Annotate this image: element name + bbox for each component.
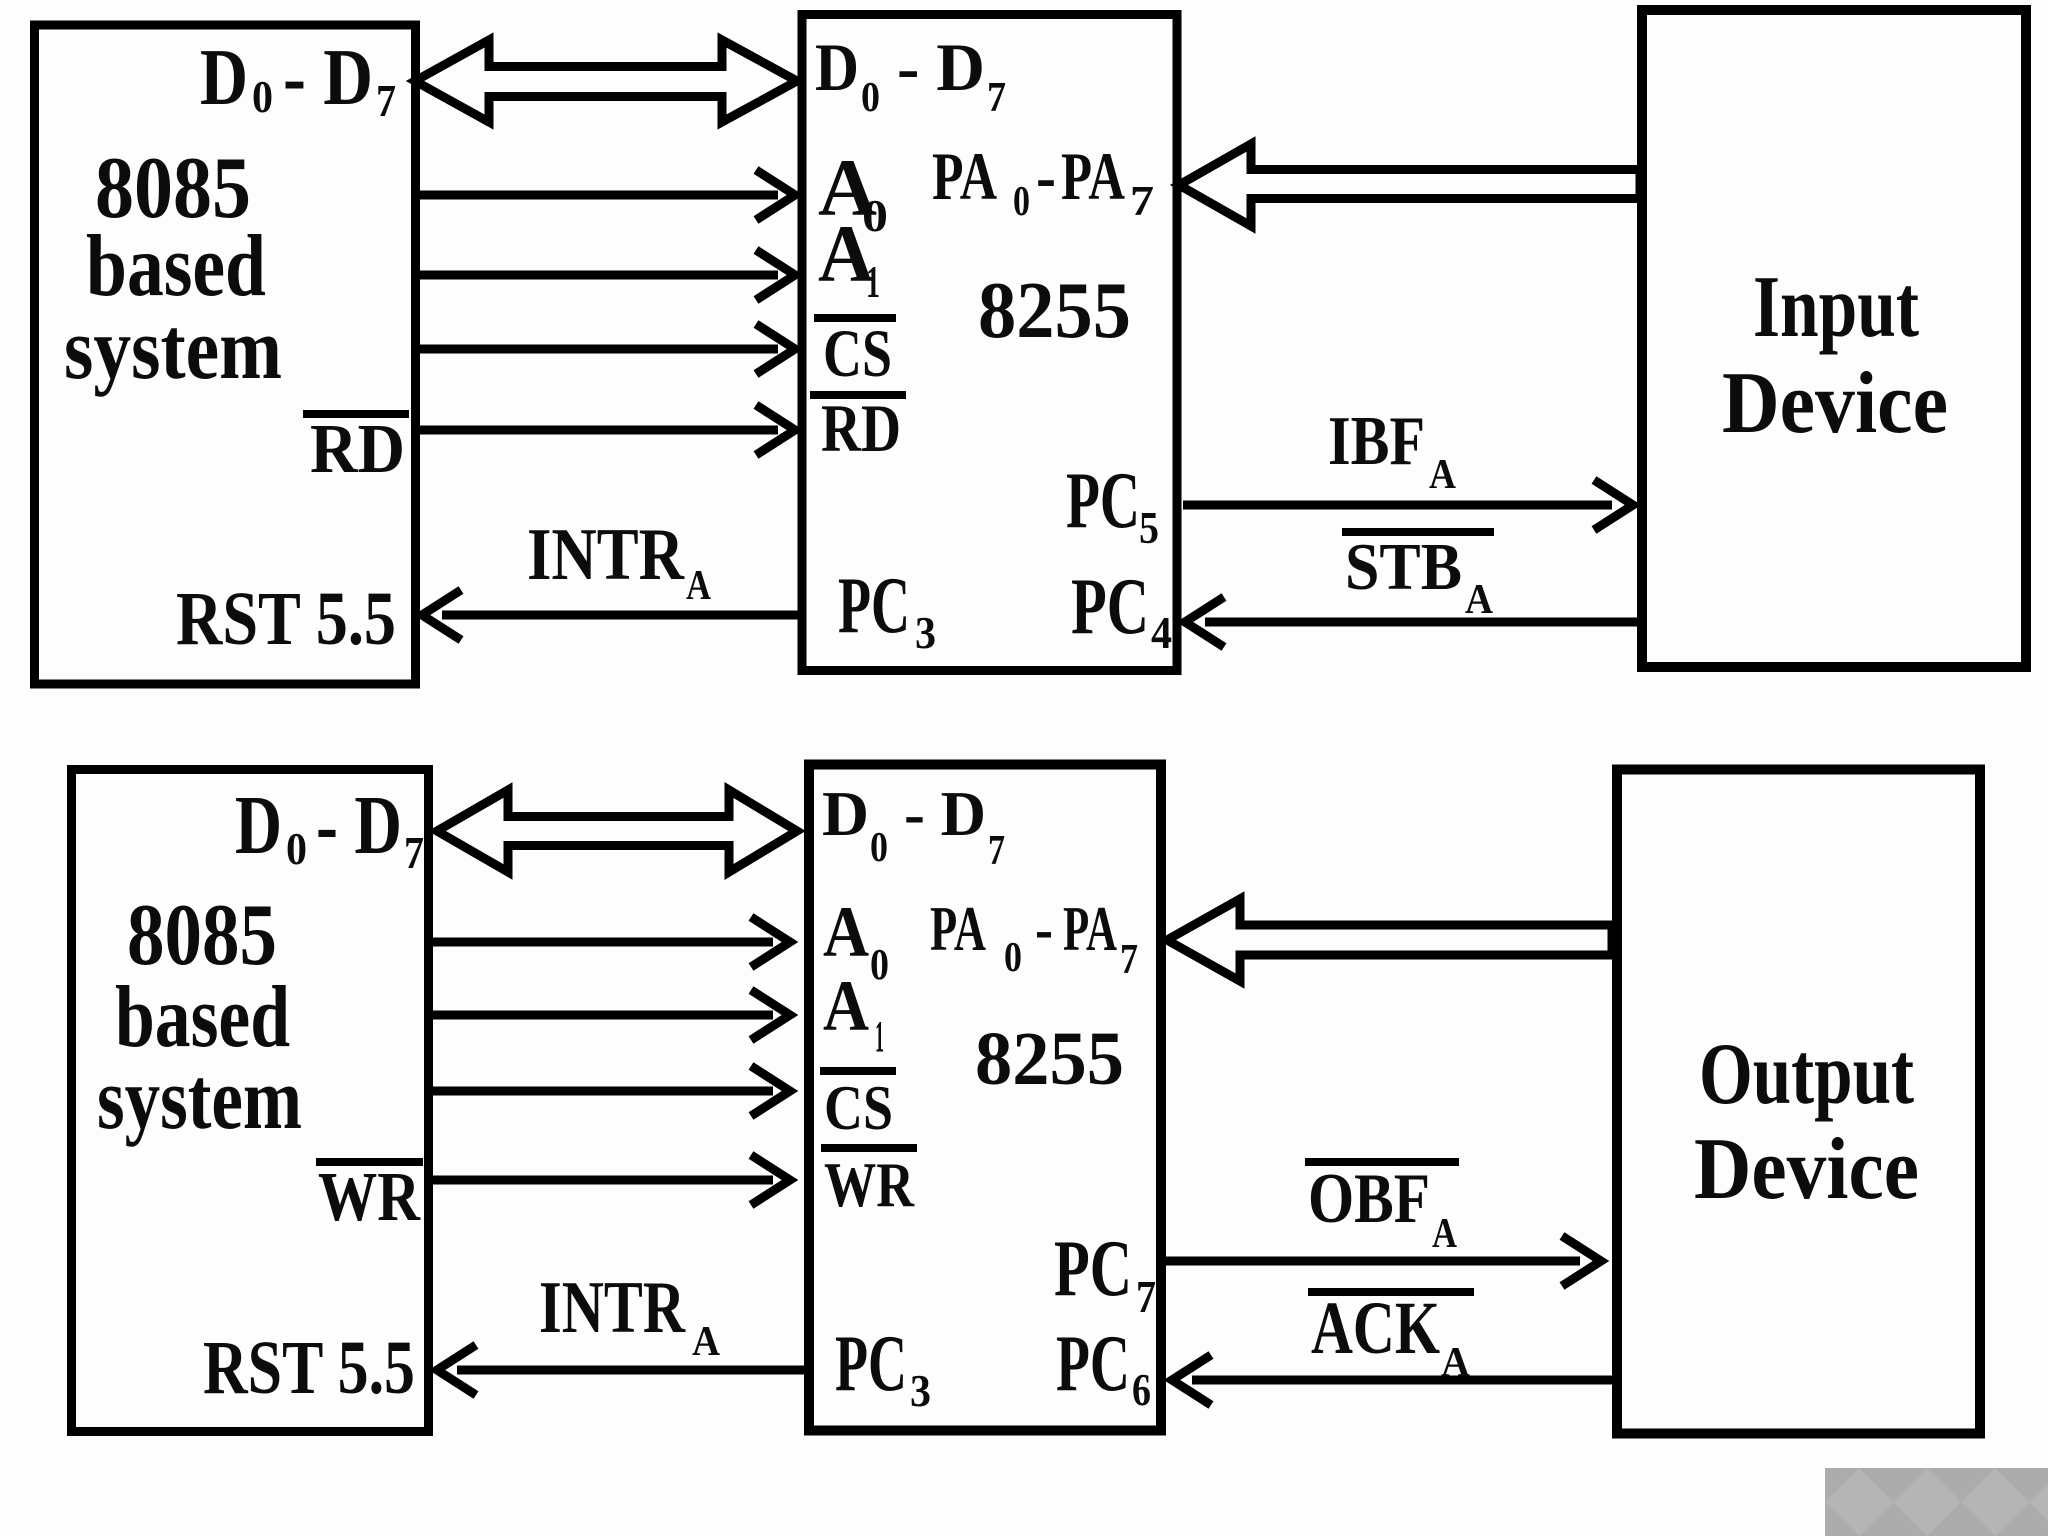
bus: PA0-PA7 hollow arrow (top) [1179,144,1640,226]
arrowhead INTRA pointing left (top) [422,590,461,640]
overline of CS (top 8255) [814,314,896,322]
svg-text:RST 5.5: RST 5.5 [203,1326,415,1410]
svg-text:7: 7 [988,828,1005,874]
svg-text:Device: Device [1694,1121,1919,1218]
wire: RD line (top) [416,426,778,435]
svg-text:PC: PC [838,562,910,650]
svg-text:7: 7 [376,75,396,126]
wire: INTRA line (bottom) [457,1366,808,1375]
bus: D0-D7 bidirectional hollow arrow (bottom) [437,790,797,872]
svg-text:INTR: INTR [539,1267,686,1349]
svg-text:CS: CS [823,315,892,391]
svg-text:PA: PA [1063,893,1117,964]
svg-text:- D: - D [283,34,373,122]
svg-text:8255: 8255 [975,1017,1124,1101]
svg-text:PA: PA [932,138,997,214]
svg-text:7: 7 [404,827,424,878]
svg-text:A: A [686,563,712,609]
svg-text:0: 0 [252,71,273,122]
pin label D0-D7 of top 8085 block [200,34,396,126]
arrowhead A1 (top) [756,250,795,300]
svg-text:PC: PC [1054,1225,1132,1313]
pin label D0-D7 of bottom 8255 [822,778,1005,874]
svg-text:- D: - D [904,778,986,849]
svg-text:WR: WR [318,1159,421,1236]
overline of OBF [1305,1158,1459,1166]
svg-text:Input: Input [1753,259,1919,356]
svg-text:- D: - D [897,29,985,105]
svg-text:RST 5.5: RST 5.5 [176,577,396,661]
svg-text:PA: PA [930,893,986,964]
overline of RD (top 8085) [303,410,409,418]
svg-text:A: A [1429,452,1457,498]
svg-text:0: 0 [1013,179,1030,225]
arrowhead INTRA pointing left (bottom) [437,1345,476,1395]
wire: WR line (bottom) [432,1176,773,1185]
svg-text:A: A [823,966,869,1046]
svg-text:-: - [1036,138,1056,214]
arrowhead OBFA pointing right [1562,1236,1601,1286]
arrowhead ACKA pointing left [1172,1355,1211,1405]
svg-text:WR: WR [824,1150,915,1220]
svg-text:D: D [200,34,248,122]
svg-text:PC: PC [1071,563,1149,651]
svg-text:7: 7 [987,75,1006,121]
svg-text:D: D [815,29,859,105]
svg-text:0: 0 [861,75,880,121]
pin label D0-D7 of top 8255 [815,29,1006,121]
svg-text:-: - [1035,893,1053,964]
svg-text:ACK: ACK [1311,1287,1440,1370]
svg-text:PC: PC [1056,1320,1130,1408]
wire: A0 line (bottom) [432,938,773,947]
arrowhead A1 (bottom) [751,990,790,1040]
arrowhead STBA pointing left [1185,597,1224,647]
svg-text:0: 0 [870,940,889,989]
arrowhead CS (bottom) [751,1066,790,1116]
svg-text:8255: 8255 [978,267,1131,355]
svg-text:STB: STB [1345,530,1462,604]
svg-text:1: 1 [866,256,880,307]
svg-text:0: 0 [870,825,888,871]
block: 8085 based system (top) [35,25,416,684]
svg-text:A: A [1432,1211,1458,1257]
svg-text:A: A [1441,1340,1471,1386]
overline of CS (bottom 8255) [820,1067,896,1075]
pin label PA0-PA7 of bottom 8255 [930,893,1138,983]
svg-text:IBF: IBF [1328,403,1425,480]
overline of WR (bottom 8085) [316,1158,423,1166]
bus: D0-D7 bidirectional hollow arrow (top) [415,40,797,122]
svg-text:OBF: OBF [1308,1160,1430,1238]
svg-text:1: 1 [875,1012,884,1061]
overline of WR (bottom 8255) [821,1144,917,1152]
wire: OBFA line (bottom) [1166,1257,1580,1266]
pin label PA0-PA7 of top 8255 [932,138,1154,225]
block: Input Device [1642,10,2026,667]
block: 8255 (bottom) [809,765,1161,1431]
arrowhead WR (bottom) [751,1155,790,1205]
svg-text:- D: - D [316,779,402,872]
svg-text:7: 7 [1130,179,1154,225]
svg-text:Output: Output [1699,1026,1914,1123]
svg-text:Device: Device [1722,355,1948,452]
wire: CS line (top) [416,345,778,354]
svg-text:3: 3 [910,1365,931,1416]
overline of ACK [1308,1288,1474,1296]
svg-text:7: 7 [1136,1271,1156,1322]
svg-text:4: 4 [1151,607,1172,658]
svg-text:7: 7 [1120,937,1138,983]
arrowhead RD (top) [756,405,795,455]
block: 8085 based system (bottom) [72,770,429,1432]
svg-text:system: system [64,301,282,398]
svg-text:A: A [823,892,869,972]
bus: PA0-PA7 hollow arrow (bottom) [1167,899,1612,981]
svg-text:D: D [822,778,869,849]
svg-text:A: A [692,1319,721,1365]
svg-text:0: 0 [1004,935,1022,981]
overline of RD (top 8255) [810,391,906,399]
block: 8255 (top) [802,15,1177,671]
wire: CS line (bottom) [432,1087,773,1096]
wire: A1 line (top) [416,271,778,280]
svg-text:INTR: INTR [527,514,685,596]
wire: ACKA line (bottom) [1192,1376,1612,1385]
arrowhead A0 (bottom) [751,917,790,967]
svg-text:system: system [97,1051,302,1148]
svg-text:PA: PA [1061,138,1125,214]
arrowhead IBFA pointing right [1594,480,1633,530]
wire: STBA line (top) [1205,618,1640,627]
wire: IBFA line (top) [1183,501,1612,510]
svg-text:RD: RD [310,411,405,488]
svg-text:0: 0 [286,823,307,874]
svg-text:3: 3 [915,607,936,658]
svg-text:6: 6 [1132,1364,1151,1415]
arrowhead CS (top) [756,324,795,374]
wire: INTRA line (top) [442,611,803,620]
wire: A0 line (top) [416,191,778,200]
block: Output Device [1617,770,1980,1434]
svg-text:A: A [1465,577,1494,623]
svg-text:5: 5 [1139,502,1159,553]
overline of STB [1342,528,1494,536]
arrowhead A0 (top) [756,170,795,220]
svg-text:PC: PC [835,1320,907,1408]
svg-text:D: D [235,779,282,872]
svg-text:CS: CS [824,1073,893,1143]
pin label D0-D7 of bottom 8085 [235,779,424,878]
svg-text:PC: PC [1066,457,1140,545]
svg-text:RD: RD [821,390,901,466]
wire: A1 line (bottom) [432,1011,773,1020]
